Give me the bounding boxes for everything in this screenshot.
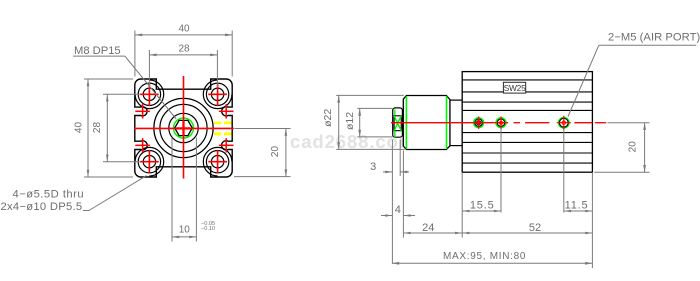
svg-text:28: 28 xyxy=(92,122,103,134)
svg-text:52: 52 xyxy=(529,222,541,234)
svg-text:40: 40 xyxy=(74,122,85,134)
svg-text:MAX:95, MIN:80: MAX:95, MIN:80 xyxy=(443,251,526,262)
svg-text:−0.10: −0.10 xyxy=(201,226,215,232)
svg-text:20: 20 xyxy=(628,141,639,153)
svg-text:3: 3 xyxy=(370,161,376,173)
svg-text:ø22: ø22 xyxy=(322,109,334,127)
svg-text:40: 40 xyxy=(178,24,190,35)
svg-text:4: 4 xyxy=(395,204,401,216)
svg-text:2−M5 (AIR PORT): 2−M5 (AIR PORT) xyxy=(608,31,700,43)
svg-text:2x4−ø10 DP5.5: 2x4−ø10 DP5.5 xyxy=(1,201,83,213)
svg-text:24: 24 xyxy=(422,222,434,234)
svg-text:10: 10 xyxy=(179,225,191,236)
svg-text:11.5: 11.5 xyxy=(565,199,589,211)
svg-text:SW25: SW25 xyxy=(504,83,527,93)
svg-text:ø12: ø12 xyxy=(344,112,356,130)
svg-text:28: 28 xyxy=(178,44,190,55)
svg-text:M8 DP15: M8 DP15 xyxy=(74,45,121,57)
svg-text:20: 20 xyxy=(270,146,281,158)
svg-text:4−ø5.5D thru: 4−ø5.5D thru xyxy=(13,189,85,201)
svg-text:15.5: 15.5 xyxy=(470,199,495,211)
